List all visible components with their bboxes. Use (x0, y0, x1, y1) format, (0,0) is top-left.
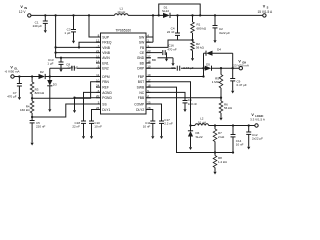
svg-text:AGND: AGND (102, 91, 112, 95)
wire CE row to ground via C16 (146, 52, 162, 54)
ground R2 (192, 53, 194, 59)
svg-text:15 V/1.5 A: 15 V/1.5 A (257, 10, 273, 14)
svg-text:470 µF: 470 µF (7, 95, 17, 99)
pin 16 BD right stub (146, 62, 151, 64)
pin 10 DRP right stub (146, 67, 151, 69)
svg-text:D5: D5 (206, 63, 210, 67)
svg-text:BD: BD (140, 61, 145, 65)
diode D6 freewheel (190, 126, 192, 131)
wire divider junction (215, 152, 233, 154)
svg-text:220 nF: 220 nF (36, 125, 46, 129)
pin 24 REF left stub (96, 86, 101, 88)
svg-text:12 V: 12 V (19, 10, 26, 14)
wire DRP row join (146, 76, 204, 78)
diode D5 (205, 66, 212, 71)
ground C13 (60, 67, 62, 70)
inductor L1 (115, 14, 129, 16)
svg-text:DLY1: DLY1 (102, 108, 110, 112)
svg-text:2x22 µF: 2x22 µF (252, 137, 263, 141)
capacitor C12 buck output (248, 124, 250, 126)
resistor R8 (214, 153, 216, 156)
svg-text:0.47 µF: 0.47 µF (237, 83, 247, 87)
svg-text:22 nF: 22 nF (72, 125, 80, 129)
ground C18 (83, 129, 85, 137)
svg-text:3.3 V/1.5 A: 3.3 V/1.5 A (250, 117, 265, 121)
pin 9 EN2 left stub (96, 67, 101, 69)
wire rail L1 to D1 (128, 14, 163, 16)
svg-text:0.47 µF: 0.47 µF (183, 66, 193, 70)
pin 14 EN1 left stub (96, 62, 101, 64)
node A column (202, 67, 204, 69)
node VS output terminal (263, 14, 266, 17)
svg-text:FREQ: FREQ (102, 41, 112, 45)
svg-text:470 nF: 470 nF (167, 47, 177, 51)
capacitor C14 feedforward buck (232, 124, 234, 126)
capacitor C18 REF bypass (84, 92, 101, 121)
svg-text:10 µH: 10 µH (117, 10, 125, 14)
capacitor C13 AVIN filter (60, 57, 62, 59)
resistor R7 (214, 124, 216, 126)
wire FBP line (146, 97, 221, 99)
svg-text:1.2 kΩ: 1.2 kΩ (218, 160, 228, 164)
capacitor C6 100nF (146, 92, 185, 100)
svg-text:NC: NC (139, 91, 144, 95)
capacitor C10 delay (92, 110, 101, 122)
wire VGL rail left (14, 76, 38, 78)
svg-text:FBN: FBN (102, 80, 109, 84)
wire SUP riser (88, 14, 90, 16)
pin 8 SUP left stub (96, 36, 101, 38)
wire FB line (146, 40, 193, 47)
svg-text:160 kΩ: 160 kΩ (20, 108, 30, 112)
capacitor C5 softstart (31, 117, 33, 121)
svg-text:23 V/50 mA: 23 V/50 mA (233, 63, 249, 67)
svg-text:FBP: FBP (138, 75, 145, 79)
capacitor C8 flying (77, 67, 101, 69)
pin 7 VINB left stub (96, 46, 101, 48)
svg-text:24: 24 (96, 84, 100, 88)
pin 12 FREQ left stub (96, 41, 101, 43)
node VGL output terminal (11, 75, 14, 78)
pin 19 FBP right stub (146, 76, 151, 78)
wire VIN branch vertical to VINB pins (55, 15, 57, 57)
svg-text:56 kΩ: 56 kΩ (224, 106, 233, 110)
pin 26 DLY1 left stub (96, 109, 101, 111)
capacitor C3 1uF (72, 14, 74, 16)
svg-text:DRP: DRP (137, 67, 145, 71)
svg-text:D3: D3 (53, 82, 57, 86)
node VLOGIC output terminal (255, 124, 258, 127)
wire VINB pin 3 (56, 46, 101, 48)
capacitor C11 COMP (146, 110, 153, 122)
capacitor C1 (44, 14, 46, 16)
capacitor C2 output (214, 14, 216, 16)
pin 3 SW right stub (146, 41, 151, 43)
svg-text:D4: D4 (217, 47, 221, 51)
wire VLOGIC rail (209, 125, 255, 127)
pin 4 SW right stub (146, 36, 151, 38)
wire SWB buck route (146, 82, 191, 126)
ground C2 (214, 34, 216, 40)
svg-text:820 kΩ: 820 kΩ (35, 91, 45, 95)
diode D3 (49, 75, 51, 77)
ground AGND (74, 98, 76, 111)
diode D2 (39, 74, 46, 79)
wire VGL rail right (45, 76, 100, 78)
svg-text:240 µF: 240 µF (33, 24, 43, 28)
svg-text:SWB: SWB (137, 86, 145, 90)
wire SS route to R4 bottom (32, 104, 100, 117)
ground C11 (152, 129, 154, 137)
ground C1 (44, 27, 46, 30)
ground C7 (18, 91, 20, 97)
svg-text:SL22: SL22 (162, 9, 169, 13)
ground R8 (214, 169, 216, 172)
resistor R6 (220, 98, 222, 101)
svg-text:PGND: PGND (102, 96, 112, 100)
svg-text:V: V (263, 5, 266, 9)
svg-text:EN2: EN2 (102, 67, 109, 71)
wire AVIN pin 5 (56, 57, 101, 59)
svg-text:BD: BD (152, 58, 156, 62)
svg-text:SUP: SUP (102, 35, 110, 39)
ground CE (166, 53, 168, 59)
capacitor C7 VGL output (18, 75, 20, 77)
ground R6 (220, 114, 222, 118)
svg-text:BST: BST (138, 80, 144, 84)
svg-text:3x22 µF: 3x22 µF (219, 31, 230, 35)
pin 6 AGND left stub (96, 91, 101, 93)
svg-text:-6 V/50 mA: -6 V/50 mA (4, 69, 19, 73)
diode D1 (163, 13, 170, 18)
svg-text:1 µF: 1 µF (47, 61, 53, 65)
ground C3 (73, 36, 75, 41)
svg-text:COMP: COMP (134, 102, 145, 106)
pin 11 DPM left stub (96, 76, 101, 78)
pin 23 CE right stub (146, 52, 151, 54)
pin 28 DLY2 right stub (146, 109, 151, 111)
svg-text:FBB: FBB (138, 96, 145, 100)
op-amp U1 TPS65160 IC body (101, 33, 147, 114)
pin 20 PGND left stub (96, 97, 101, 99)
ground C6 (184, 106, 186, 109)
svg-text:1 MΩ: 1 MΩ (212, 80, 220, 84)
ground C17 (161, 129, 163, 137)
wire VINB pin 4 (56, 52, 101, 54)
pin 2 FBB right stub (146, 97, 151, 99)
wire FBB route (146, 87, 215, 152)
svg-text:VINB: VINB (102, 46, 110, 50)
svg-text:REF: REF (102, 86, 109, 90)
svg-text:DLY2: DLY2 (136, 108, 144, 112)
svg-text:CE: CE (140, 51, 145, 55)
svg-text:56 kΩ: 56 kΩ (196, 46, 205, 50)
svg-text:D2: D2 (40, 70, 44, 74)
svg-text:TPS65160: TPS65160 (115, 29, 131, 33)
ground D3 (49, 86, 51, 106)
pin 5 NC right stub (146, 91, 151, 93)
svg-text:680 kΩ: 680 kΩ (197, 26, 207, 30)
svg-text:10 nF: 10 nF (236, 143, 244, 147)
svg-text:0.47 µF: 0.47 µF (68, 65, 78, 69)
svg-text:V: V (20, 5, 23, 9)
wire AGND route (75, 97, 101, 99)
wire D1 to VS terminal (170, 14, 263, 16)
svg-text:10 µH: 10 µH (198, 120, 206, 124)
wire SW node drop (152, 14, 154, 16)
wire SW pin 1 stub (146, 36, 153, 38)
node VIN input terminal (28, 14, 31, 17)
svg-text:GND: GND (137, 56, 145, 60)
inductor L2 (191, 125, 196, 127)
resistor R1 (191, 14, 193, 16)
svg-text:SL22: SL22 (196, 135, 203, 139)
ground C5 (31, 133, 33, 143)
capacitor C5b charge pump 0.47uF (146, 67, 176, 69)
svg-text:VINB: VINB (102, 51, 110, 55)
wire FBN route (32, 82, 100, 99)
pin 27 GND right stub (146, 57, 151, 59)
svg-text:10 nF: 10 nF (94, 125, 102, 129)
pin 3 SS left stub (96, 103, 101, 105)
svg-text:2 kΩ: 2 kΩ (218, 135, 225, 139)
wire VGH rail (212, 67, 240, 69)
capacitor C17 2.2nF (146, 104, 162, 121)
resistor R3 (31, 75, 33, 77)
svg-text:AVIN: AVIN (102, 56, 110, 60)
resistor R2 (192, 40, 194, 42)
ground C10 (91, 129, 93, 137)
pin 17 BST right stub (146, 81, 151, 83)
pin 16 AVIN left stub (96, 57, 101, 59)
svg-text:DPM: DPM (102, 75, 110, 79)
capacitor C9 VGH output (232, 67, 234, 69)
svg-text:16: 16 (147, 60, 151, 64)
ground D6 (190, 137, 192, 142)
pin 21 VINB left stub (96, 52, 101, 54)
resistor R5 (220, 67, 222, 69)
svg-text:EN1: EN1 (102, 61, 109, 65)
wire VIN rail (31, 14, 115, 16)
pin 10 FBN left stub (96, 81, 101, 83)
svg-text:100 nF: 100 nF (188, 102, 198, 106)
svg-text:10 nF: 10 nF (143, 125, 151, 129)
svg-text:2.2 nF: 2.2 nF (164, 122, 173, 126)
wire SW pin 2 stub (146, 41, 153, 43)
pin 1 FB right stub (146, 46, 151, 48)
ground C9 (232, 87, 234, 91)
wire BD row to ground (146, 57, 151, 59)
svg-text:1 µF: 1 µF (64, 31, 70, 35)
svg-text:SW: SW (139, 35, 145, 39)
svg-text:22 nF: 22 nF (167, 30, 175, 34)
ground BD (172, 58, 174, 63)
wire snubber loop across D1 (159, 4, 200, 15)
wire FREQ pin link (79, 42, 101, 47)
svg-text:C5: C5 (171, 66, 175, 70)
svg-text:SW: SW (139, 41, 145, 45)
resistor R4 (31, 98, 33, 101)
capacitor C4 feedforward (176, 14, 178, 16)
svg-text:14: 14 (96, 60, 100, 64)
pin 25 COMP right stub (146, 103, 151, 105)
pin 18 SWB right stub (146, 86, 151, 88)
diode D4 (204, 52, 207, 54)
ground C12 (248, 140, 250, 147)
node VGH output terminal (239, 67, 242, 70)
